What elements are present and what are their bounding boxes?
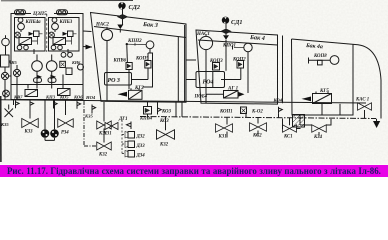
hatched box below Bak4a bbox=[293, 115, 305, 128]
wires below Bak4a bbox=[300, 115, 331, 136]
valve K92 bowtie bbox=[97, 142, 112, 150]
sensor DZ2 square bbox=[125, 132, 135, 139]
paper noise bbox=[0, 0, 1, 1]
component AG1 bbox=[224, 91, 239, 99]
sub-box left (КПБ4 unit) bbox=[15, 18, 46, 52]
component KPV4 bbox=[144, 107, 152, 115]
arrow in right sub-box bbox=[63, 32, 68, 36]
sub-box right (КПБ3 unit) bbox=[49, 18, 80, 52]
valve on Bak3 top edge under SD2 bbox=[118, 15, 127, 19]
vent bump left on top border bbox=[15, 10, 26, 15]
valve circle KPB3 bbox=[52, 23, 59, 32]
wire left sub-box bbox=[21, 22, 43, 45]
flag K95 below bus bbox=[92, 105, 96, 114]
component PS3 bbox=[53, 38, 66, 45]
left scan edge line bbox=[0, 96, 2, 162]
valve KOP2 square bbox=[237, 61, 244, 69]
flag fitting C below bus bbox=[54, 101, 58, 109]
vent pair bottom left sub-box bbox=[17, 45, 28, 50]
component PS4 bbox=[19, 38, 32, 45]
wire left margin bbox=[5, 46, 11, 100]
arrow under pump N5 bbox=[37, 75, 43, 80]
arrow under pump N6 bbox=[51, 75, 57, 80]
drain point circles bbox=[41, 129, 59, 138]
crossed circle left margin bbox=[1, 72, 8, 79]
caption magenta bar bbox=[0, 165, 388, 178]
label CZP5 bbox=[31, 10, 54, 17]
valve on Bak4 top edge under SD1 bbox=[222, 29, 231, 33]
valve KOPB square bbox=[126, 63, 132, 70]
box CZP5 (ЦЗП5 refuel panel) bbox=[11, 14, 83, 100]
wire Bak3 to Bak4 links bbox=[186, 60, 196, 80]
dashdot drain bus bbox=[140, 117, 376, 119]
flag fitting B below bus bbox=[30, 100, 34, 108]
valve K35 (left X) bbox=[5, 105, 14, 118]
valve square mid bbox=[241, 107, 247, 114]
valve K34 bowtie bbox=[312, 125, 327, 133]
inner band line Bak4 bbox=[198, 40, 278, 45]
crossed circle at bus left bbox=[3, 90, 10, 97]
sensor SD2 bbox=[118, 2, 125, 9]
component KG2 bbox=[129, 88, 143, 99]
inner band line Bak3 bbox=[94, 27, 186, 38]
wire CZP5 to Bak3 bbox=[83, 31, 92, 47]
vent circle left sub-box bbox=[18, 18, 23, 23]
flag KO3 bbox=[158, 107, 162, 115]
wire right sub-box bbox=[55, 22, 77, 45]
vent bump right on top border bbox=[57, 10, 68, 15]
sensor DZ4 square bbox=[125, 151, 135, 158]
wire KB1 link bbox=[283, 119, 301, 129]
valve KAC1 bowtie bbox=[358, 103, 372, 111]
wire dashdot to K92 bbox=[84, 101, 97, 146]
component RO6 bbox=[58, 89, 71, 96]
vent circle near right edge CZP5 bbox=[78, 64, 84, 70]
valve K91 bowtie bbox=[97, 121, 112, 129]
valve K33 bowtie bbox=[22, 119, 39, 128]
wire KAC1 stem bbox=[322, 104, 377, 121]
wire stems mid drain bbox=[166, 114, 290, 138]
pump circle N6 bbox=[46, 55, 57, 72]
component RO3 bbox=[105, 73, 132, 86]
wire SD1 stem bbox=[225, 24, 227, 71]
valve KOP3 square bbox=[213, 63, 220, 71]
small valve box left sub-box bbox=[34, 31, 40, 37]
arrow under SD1 valve bbox=[223, 35, 229, 40]
valve circle KPO1 bbox=[233, 43, 253, 51]
pipe between Bak4 and Bak4a bbox=[282, 36, 284, 104]
small valve box right sub-box bbox=[68, 31, 74, 37]
wire drops to lower valves bbox=[14, 100, 66, 140]
main bus wire bbox=[0, 100, 366, 103]
valve KB1 bowtie bbox=[283, 125, 297, 133]
valve K32 big bowtie bbox=[157, 130, 175, 140]
wires below Bak3 bbox=[148, 102, 183, 118]
capsule under pump N6 bbox=[48, 78, 56, 83]
vent circle right sub-box bbox=[52, 18, 57, 23]
component RO4 bbox=[196, 72, 225, 88]
arrow KG2 bbox=[118, 92, 128, 97]
tank Bak3 (Бак 3) bbox=[91, 13, 187, 103]
valve K31 bowtie bbox=[216, 124, 233, 133]
tank Bak4 (Бак 4) bbox=[196, 30, 278, 104]
gauge circle left margin bbox=[2, 35, 10, 46]
valve KOP5 square bbox=[145, 61, 151, 69]
wire pipe right Bak3 bbox=[178, 25, 184, 102]
valve RZ4 bowtie bbox=[58, 119, 74, 128]
small labels on bus bbox=[13, 94, 83, 99]
wire center dashed CZP5 bbox=[46, 14, 48, 52]
valve KOP8 bbox=[309, 56, 339, 65]
valve box 2 right of pumps bbox=[66, 68, 72, 75]
arrow AG1 bbox=[239, 92, 245, 97]
flag DG1 bbox=[127, 122, 132, 130]
sensor SD1 bbox=[222, 17, 229, 24]
gauge cross right sub-box bbox=[49, 32, 55, 38]
pump NAS2 bbox=[101, 27, 112, 41]
vent pair bottom right sub-box bbox=[51, 45, 62, 50]
valve circle KPB4 bbox=[18, 23, 25, 32]
capsule under pump N5 bbox=[34, 78, 42, 83]
flag fitting A below bus bbox=[16, 100, 20, 108]
gauge cross left sub-box bbox=[15, 32, 21, 38]
vent pair center CZP5 bbox=[61, 52, 72, 57]
gauge symbol left inside CZP5 bbox=[13, 69, 20, 76]
wires inside Bak3 bbox=[107, 41, 153, 102]
wire K91 stem bbox=[103, 102, 105, 143]
valve circle KPP2 bbox=[126, 41, 154, 49]
top scan edge line bbox=[1, 0, 133, 2]
component box left margin bbox=[1, 55, 10, 67]
pump circle N5 bbox=[32, 55, 43, 72]
pump NAS1 bbox=[199, 34, 212, 49]
component KG5 bbox=[313, 92, 332, 104]
arrow KG5 bbox=[302, 97, 312, 102]
valve box right of pumps bbox=[60, 61, 66, 67]
arrow under SD2 valve bbox=[117, 25, 123, 30]
wire SD2 stem bbox=[120, 9, 122, 32]
caption text bbox=[0, 165, 388, 177]
flag valve KO4b bbox=[279, 107, 283, 114]
wire drops inside CZP5 bbox=[17, 49, 68, 99]
component RO5 bbox=[25, 90, 38, 97]
valve KC2 bowtie bbox=[250, 123, 267, 132]
wire shelf inside CZP5 bbox=[11, 84, 83, 86]
tank Bak4a body bbox=[292, 39, 354, 115]
valve KZ1 bowtie lower left bbox=[105, 123, 118, 130]
wires inside Bak4 bbox=[206, 50, 248, 104]
arrow end of drain bus bbox=[373, 121, 380, 128]
arrow into Bak3 bbox=[86, 45, 93, 50]
sensor DZ3 square bbox=[125, 141, 135, 148]
flag fitting D below bus bbox=[77, 101, 81, 109]
arrow in left sub-box bbox=[29, 32, 34, 36]
tank Bak4a (Бак 4а) bbox=[292, 39, 382, 119]
wire dashed to sensors bbox=[122, 120, 125, 154]
